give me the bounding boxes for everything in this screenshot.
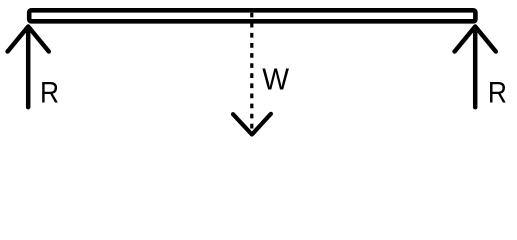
arrowhead right reaction	[455, 27, 496, 52]
arrowhead load W	[233, 114, 271, 135]
svg-text:R: R	[488, 75, 507, 109]
beam	[29, 10, 475, 21]
arrowhead left reaction	[8, 27, 49, 52]
svg-text:R: R	[40, 75, 59, 109]
svg-text:W: W	[262, 63, 289, 97]
wire left reaction shaft	[26, 27, 31, 107]
wire right reaction shaft	[473, 27, 478, 107]
wire load W dashed shaft	[250, 13, 253, 130]
